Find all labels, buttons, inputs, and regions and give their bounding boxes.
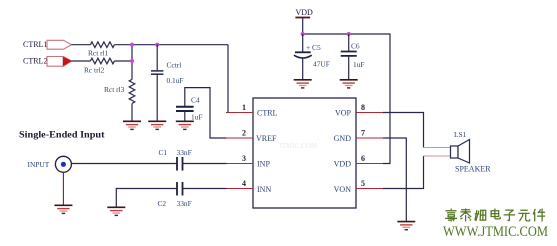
svg-text:VON: VON — [334, 185, 352, 194]
svg-text:VREF: VREF — [256, 134, 277, 143]
svg-text:5: 5 — [361, 179, 365, 188]
wire CTRL1 to R1 — [72, 44, 91, 46]
wire vertical node to Rctrl3 — [131, 45, 133, 80]
wire INPUT to ground — [62, 172, 64, 205]
svg-text:VOP: VOP — [335, 109, 352, 118]
svg-text:8: 8 — [361, 103, 365, 112]
wire VDD to C5 — [302, 34, 304, 52]
svg-text:Rct rl3: Rct rl3 — [104, 85, 125, 94]
resistor Rctrl3 — [104, 79, 135, 103]
svg-text:VDD: VDD — [334, 160, 352, 169]
svg-text:INPUT: INPUT — [28, 160, 50, 169]
svg-text:C2: C2 — [158, 199, 167, 208]
ground (INPUT) — [54, 205, 72, 213]
svg-text:Single-Ended Input: Single-Ended Input — [19, 130, 105, 141]
ground (Rctrl3) — [123, 121, 141, 129]
svg-text:GND: GND — [334, 134, 352, 143]
svg-text:C4: C4 — [191, 96, 200, 105]
port CTRL2 — [23, 57, 72, 67]
capacitor C4 — [176, 96, 203, 122]
pin 2 stub — [226, 129, 253, 139]
resistor Rctrl1 — [88, 42, 114, 58]
ground (C5) — [294, 80, 312, 88]
wire C5 to ground — [302, 58, 304, 80]
pin 8 stub — [356, 103, 383, 113]
port CTRL1 — [23, 40, 72, 49]
svg-text:INN: INN — [257, 185, 271, 194]
wire R2 to node — [114, 60, 132, 62]
svg-text:C1: C1 — [159, 148, 168, 157]
speaker stub bottom — [424, 155, 451, 157]
node junction VDD — [301, 32, 305, 36]
wire C6 to ground — [348, 56, 350, 80]
wire C2 to ground — [116, 189, 177, 208]
op-amp U1 body — [253, 98, 356, 208]
pin 3 stub — [226, 154, 253, 164]
wire rail to Cctrl — [156, 45, 158, 70]
capacitor C5 polarized — [294, 43, 330, 69]
svg-text:+ C5: + C5 — [306, 43, 321, 52]
ground (Cctrl) — [148, 121, 166, 129]
wire Cctrl to ground — [156, 74, 158, 121]
speaker LS1 — [451, 130, 492, 174]
svg-text:33nF: 33nF — [177, 148, 192, 157]
node junction C6 — [347, 32, 351, 36]
svg-text:CTRL: CTRL — [257, 109, 278, 118]
speaker stub top — [424, 147, 451, 149]
capacitor C2 — [158, 182, 192, 208]
connector INPUT — [28, 156, 72, 172]
pin 7 stub — [356, 129, 383, 139]
svg-text:Rct rl1: Rct rl1 — [88, 49, 109, 58]
svg-text:LS1: LS1 — [454, 130, 467, 139]
svg-text:SPEAKER: SPEAKER — [455, 165, 491, 174]
node junction R1 rail — [130, 43, 134, 47]
svg-text:1: 1 — [242, 103, 246, 112]
pin 4 stub — [226, 179, 253, 189]
watermark chinese — [445, 209, 545, 222]
svg-text:3: 3 — [242, 154, 246, 163]
wire CTRL2 to R2 — [72, 60, 91, 62]
wire CTRL rail corner to pin1 — [227, 45, 229, 113]
svg-text:4: 4 — [242, 179, 246, 188]
svg-text:Cctrl: Cctrl — [167, 61, 182, 70]
svg-text:CTRL2: CTRL2 — [23, 57, 47, 66]
svg-text:INP: INP — [257, 160, 270, 169]
wire C4 to ground — [184, 111, 186, 121]
node junction R2 vertical — [130, 59, 134, 63]
wire VDD rail — [303, 34, 390, 164]
wire pin8 to speaker — [383, 113, 424, 148]
svg-text:1uF: 1uF — [353, 60, 365, 69]
svg-text:33nF: 33nF — [177, 199, 192, 208]
capacitor C6 — [341, 42, 365, 70]
svg-text:0.1uF: 0.1uF — [167, 76, 184, 85]
ground (C6) — [340, 80, 358, 88]
node junction Cctrl rail — [155, 43, 159, 47]
wire rail to C6 — [348, 34, 350, 51]
svg-text:C6: C6 — [351, 42, 360, 51]
svg-text:WWW.JTMIC.COM: WWW.JTMIC.COM — [443, 224, 548, 240]
resistor Rctrl2 — [84, 58, 114, 74]
wire INPUT to C1 — [71, 163, 177, 165]
power VDD — [295, 8, 313, 34]
ground (pin7 GND) — [397, 222, 415, 230]
pin 1 stub — [226, 103, 253, 113]
pin 6 stub — [356, 154, 383, 164]
svg-text:1uF: 1uF — [191, 113, 203, 122]
wire pin7 to ground — [383, 138, 406, 221]
svg-text:7: 7 — [361, 129, 365, 138]
svg-text:Rc trl2: Rc trl2 — [84, 66, 105, 75]
capacitor Cctrl — [151, 61, 184, 86]
ground (C2) — [107, 207, 125, 215]
svg-text:47UF: 47UF — [313, 60, 330, 69]
svg-text:JTMIC.COM: JTMIC.COM — [279, 142, 318, 150]
svg-text:VDD: VDD — [296, 8, 314, 17]
wire R1 to corner node — [114, 44, 228, 46]
wire C1 to pin3 — [183, 163, 227, 165]
pin 5 stub — [356, 179, 383, 189]
wire pin5 to speaker — [383, 156, 424, 189]
wire C4 branch — [185, 88, 227, 138]
capacitor C1 — [159, 148, 192, 171]
wire Rctrl3 to ground — [131, 103, 133, 121]
ground (C4) — [176, 121, 194, 129]
svg-text:2: 2 — [242, 129, 246, 138]
svg-text:CTRL1: CTRL1 — [23, 40, 47, 49]
svg-text:6: 6 — [361, 154, 365, 163]
wire pin4 to C2 — [183, 188, 227, 190]
